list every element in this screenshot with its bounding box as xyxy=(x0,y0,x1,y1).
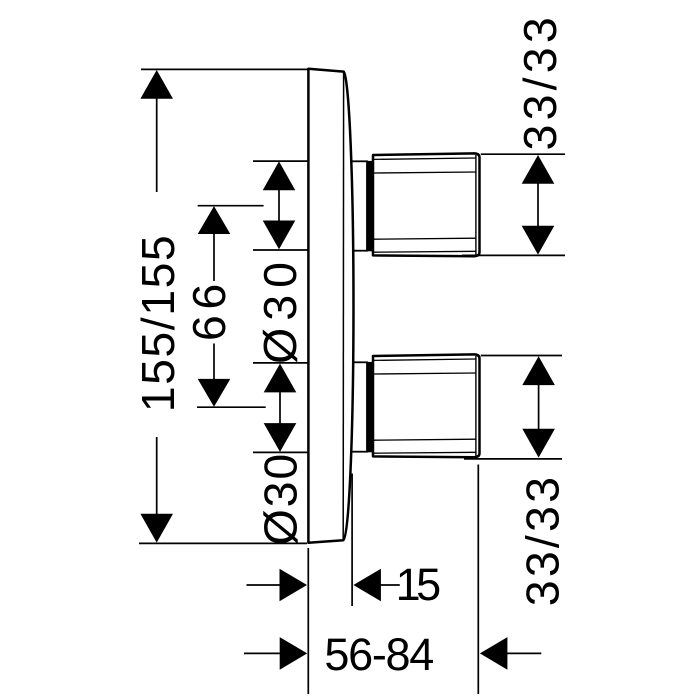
svg-text:66: 66 xyxy=(183,278,235,341)
svg-text:Ø30: Ø30 xyxy=(254,452,306,546)
svg-text:155/155: 155/155 xyxy=(132,234,184,413)
svg-text:33/33: 33/33 xyxy=(516,474,568,606)
svg-text:56-84: 56-84 xyxy=(324,629,433,680)
svg-text:Ø30: Ø30 xyxy=(254,255,306,364)
svg-text:15: 15 xyxy=(396,559,441,610)
svg-text:33/33: 33/33 xyxy=(514,13,566,150)
